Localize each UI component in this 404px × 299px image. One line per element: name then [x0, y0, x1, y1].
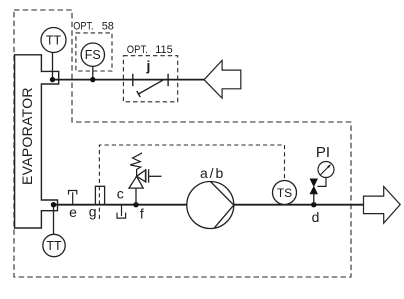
- drain fitting c: [117, 205, 126, 218]
- svg-text:OPT.: OPT.: [127, 44, 148, 56]
- svg-text:e: e: [69, 204, 77, 220]
- node: top pipe / TT junction: [50, 77, 55, 82]
- flow element g: [95, 186, 104, 204]
- evaporator vessel: [15, 55, 59, 228]
- pressure gauge PI: [318, 162, 334, 178]
- instrument TT (bottom temperature transmitter): [43, 234, 65, 256]
- svg-text:115: 115: [155, 44, 173, 56]
- node: top pipe / FS junction: [90, 77, 95, 82]
- instrument TT (top temperature transmitter): [41, 28, 66, 53]
- svg-text:g: g: [89, 204, 97, 220]
- instrument FS (flow switch): [81, 43, 104, 66]
- node: gauge valve junction d: [311, 202, 316, 207]
- wire: top pipe: [53, 79, 205, 81]
- svg-text:a/b: a/b: [200, 165, 224, 181]
- wire: PI gauge connection: [318, 178, 327, 187]
- wire: FS sensing line: [92, 66, 94, 79]
- instrument TS (thermostat): [273, 181, 297, 205]
- outer dashed package boundary: [14, 10, 351, 277]
- wire: bottom pipe (suction side): [54, 204, 187, 206]
- svg-text:j: j: [146, 58, 151, 74]
- OPT. 115 dashed box: [123, 56, 177, 102]
- wire: relief valve riser: [135, 188, 137, 205]
- svg-text:d: d: [312, 209, 320, 225]
- svg-text:c: c: [117, 185, 124, 201]
- wire: TT bottom sensing line: [53, 205, 55, 235]
- vent fitting e: [69, 191, 77, 205]
- dashed signal line from g to TS: [99, 145, 284, 219]
- wire: TT top sensing line: [52, 53, 54, 80]
- wire: bottom pipe (discharge side): [234, 204, 364, 206]
- relief valve (angle, spring loaded): [129, 153, 162, 188]
- node: bottom pipe / TT junction: [51, 202, 56, 207]
- svg-text:FS: FS: [85, 48, 101, 62]
- svg-text:TT: TT: [46, 239, 62, 253]
- node: relief valve junction f: [133, 202, 138, 207]
- inlet flow arrow: [204, 60, 241, 98]
- svg-text:TS: TS: [277, 186, 292, 200]
- pump a/b: [187, 182, 234, 229]
- OPT. 58 dashed box: [76, 33, 112, 71]
- wire: gauge valve drop: [313, 194, 315, 205]
- svg-text:f: f: [140, 205, 144, 221]
- svg-text:TT: TT: [46, 34, 62, 48]
- gauge shutoff valve (closed bowtie): [310, 179, 318, 194]
- svg-text:OPT.: OPT.: [73, 21, 93, 33]
- outlet flow arrow: [364, 187, 401, 224]
- valve j (shutoff valve with lever): [133, 74, 168, 97]
- svg-text:EVAPORATOR: EVAPORATOR: [19, 87, 35, 185]
- svg-text:58: 58: [102, 21, 114, 33]
- svg-text:PI: PI: [316, 144, 330, 161]
